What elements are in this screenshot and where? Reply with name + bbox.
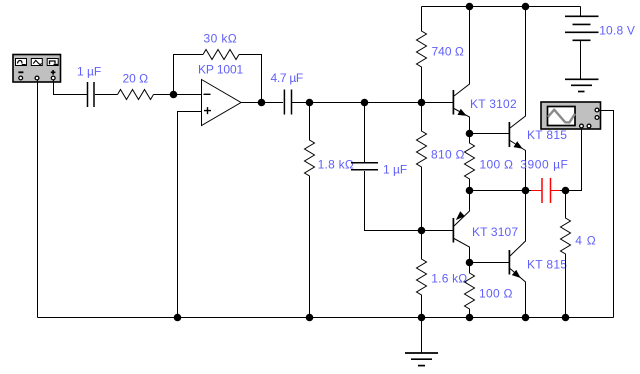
wire: oscilloscope right terminal to ground rail right edge <box>599 111 614 318</box>
wire: bottom ground rail <box>38 317 614 319</box>
svg-text:100 Ω: 100 Ω <box>479 286 513 300</box>
wire: op-amp non-inverting input down to ground rail <box>178 112 202 318</box>
node: Q1 emitter / Q2 base junction <box>466 130 474 138</box>
battery V1 10.8 V <box>565 7 599 80</box>
resistor R6 1.6 kOhm to ground rail <box>417 231 427 318</box>
ground: battery negative <box>565 79 599 91</box>
node: Q3 base junction <box>418 227 426 235</box>
ground: main circuit ground below rail <box>405 318 438 366</box>
resistor R5 810 Ohm between bases <box>417 103 427 231</box>
oscilloscope XSC1 <box>541 102 601 129</box>
node: output node at Q2 emitter <box>522 187 530 195</box>
transistor Q4 KT 815 NPN lower output <box>509 191 525 318</box>
svg-text:KT 3107: KT 3107 <box>472 225 518 239</box>
svg-text:1.6 kΩ: 1.6 kΩ <box>431 271 467 285</box>
svg-text:KT 3102: KT 3102 <box>470 97 517 111</box>
wire: Q3 collector node to Q4 base <box>470 262 510 264</box>
wire: generator common terminal down to ground rail <box>37 80 39 318</box>
wire: op-amp output to C2 <box>241 102 283 104</box>
svg-text:810 Ω: 810 Ω <box>431 147 465 161</box>
node: Q4 emitter on ground rail <box>522 314 530 322</box>
function generator XFG1 <box>13 55 61 83</box>
node: junction C3 top <box>361 99 369 107</box>
transistor Q1 KT 3102 NPN driver <box>453 7 469 134</box>
top supply rail <box>422 6 581 8</box>
wire: feedback loop right vertical to output <box>239 55 262 103</box>
transistor Q2 KT 815 NPN upper output <box>509 7 525 191</box>
node: junction Q1 base / R5 <box>418 99 426 107</box>
node: R3 bottom on ground rail <box>306 314 314 322</box>
node: output junction with feedback <box>258 99 266 107</box>
node: R9 bottom on ground rail <box>562 314 570 322</box>
transistor Q3 KT 3107 PNP driver <box>422 191 470 263</box>
svg-text:KP 1001: KP 1001 <box>198 63 244 77</box>
resistor R1 20 Ohm <box>118 90 154 100</box>
svg-text:100 Ω: 100 Ω <box>480 157 514 171</box>
node: + input wire on ground rail <box>174 314 182 322</box>
svg-text:740 Ω: 740 Ω <box>432 44 464 58</box>
resistor R4 740 Ohm from top rail <box>417 7 427 103</box>
svg-text:1 µF: 1 µF <box>383 163 407 177</box>
resistor R2 30 kOhm feedback <box>203 50 239 60</box>
svg-text:20 Ω: 20 Ω <box>123 72 149 86</box>
svg-text:30 kΩ: 30 kΩ <box>204 31 238 45</box>
capacitor C3 1uF shunt <box>351 103 422 231</box>
resistor R9 4 Ohm load <box>561 191 571 318</box>
node: output node rail junction Q1 side <box>466 187 474 195</box>
resistor R8 100 Ohm lower emitter <box>465 263 475 318</box>
svg-text:4 Ω: 4 Ω <box>575 234 596 248</box>
svg-text:10.8 V: 10.8 V <box>599 23 635 37</box>
svg-text:1 µF: 1 µF <box>77 65 101 79</box>
svg-text:4.7 µF: 4.7 µF <box>271 71 303 85</box>
wire: C2 to driver base node <box>292 102 454 104</box>
wire: R1 to op-amp inverting input <box>154 94 202 96</box>
node: Q1 collector on top rail <box>466 3 474 11</box>
capacitor C2 4.7uF <box>284 90 291 115</box>
node: junction at feedback tap <box>170 91 178 99</box>
op-amp U1 KP 1001 <box>202 80 242 126</box>
node: R8 bottom on ground rail <box>466 314 474 322</box>
wire: load node to oscilloscope input <box>566 128 582 191</box>
node: load node junction <box>562 187 570 195</box>
capacitor C4 3900uF output (selected, red) <box>531 178 566 203</box>
node: junction R3 top <box>306 99 314 107</box>
svg-text:KT 815: KT 815 <box>527 128 567 142</box>
svg-text:1.8 kΩ: 1.8 kΩ <box>318 158 355 172</box>
capacitor C1 1uF <box>88 82 118 107</box>
wire: generator + terminal to C1 <box>54 80 88 95</box>
node: R6 bottom on ground rail <box>418 314 426 322</box>
node: Q3 collector / Q4 base junction <box>466 259 474 267</box>
wire: Q1 emitter node to Q2 base <box>470 133 510 135</box>
svg-text:KT 815: KT 815 <box>527 258 567 272</box>
wire: feedback loop left vertical <box>174 55 204 95</box>
node: Q2 collector on top rail <box>522 3 530 11</box>
resistor R3 1.8 kOhm with wire to ground rail <box>305 103 315 318</box>
wire: output rail <box>470 190 532 192</box>
svg-text:3900 µF: 3900 µF <box>520 158 568 172</box>
resistor R7 100 Ohm emitter <box>465 134 475 191</box>
